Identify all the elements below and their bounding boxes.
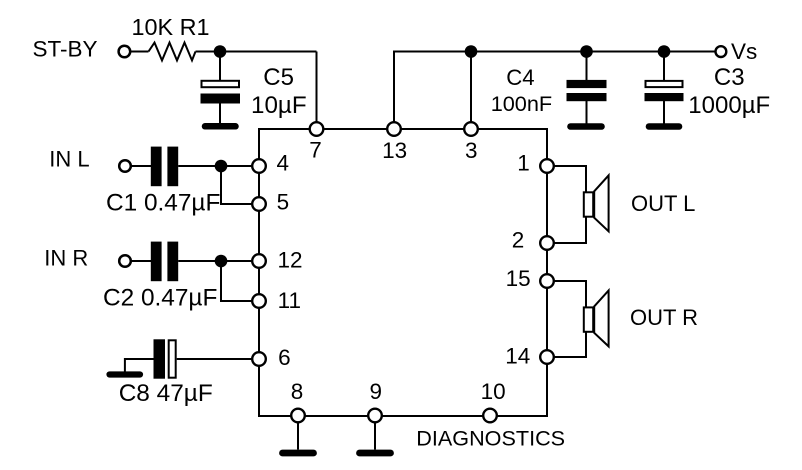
ground: [649, 123, 679, 130]
svg-text:OUT L: OUT L: [631, 191, 695, 216]
ground: [360, 450, 391, 457]
wire: [547, 217, 586, 243]
svg-text:15: 15: [506, 266, 531, 291]
wire: [219, 52, 221, 81]
pin 6: [252, 352, 266, 366]
svg-text:5: 5: [277, 189, 290, 214]
wire: [219, 104, 221, 124]
svg-text:C2 0.47µF: C2 0.47µF: [103, 285, 217, 312]
svg-text:100nF: 100nF: [491, 91, 553, 116]
pin 15: [540, 274, 554, 288]
junction: [658, 45, 671, 58]
wire: [586, 101, 588, 124]
pin 13: [387, 122, 401, 136]
wire: [297, 416, 299, 450]
svg-text:11: 11: [278, 288, 301, 313]
svg-text:2: 2: [512, 228, 525, 253]
capacitor C1: [151, 147, 178, 187]
svg-text:14: 14: [505, 344, 530, 369]
svg-text:C5: C5: [263, 64, 294, 91]
svg-text:7: 7: [309, 138, 322, 163]
svg-text:IN R: IN R: [44, 246, 88, 271]
junction: [580, 45, 593, 58]
pin 3: [464, 122, 478, 136]
svg-text:12: 12: [277, 247, 302, 272]
wire: [374, 416, 376, 450]
svg-text:1000µF: 1000µF: [688, 92, 770, 119]
pin 5: [252, 197, 266, 211]
wire: [547, 281, 586, 307]
terminal ST-BY: [119, 46, 131, 58]
speaker OUT R: [584, 291, 609, 347]
pin 14: [540, 350, 554, 364]
pin 7: [310, 122, 324, 136]
capacitor C4: [567, 80, 607, 101]
svg-text:OUT R: OUT R: [630, 305, 698, 330]
svg-text:3: 3: [465, 138, 478, 163]
svg-text:ST-BY: ST-BY: [33, 37, 98, 62]
capacitor C3: [645, 81, 684, 101]
wire: [663, 52, 665, 81]
junction: [214, 45, 227, 58]
capacitor C5: [201, 81, 241, 104]
wire: [586, 52, 588, 81]
wire: [316, 52, 318, 130]
svg-text:9: 9: [369, 379, 382, 404]
wire: [125, 359, 154, 372]
IC body: [259, 129, 547, 416]
wire: [196, 51, 317, 53]
ground: [205, 123, 236, 130]
svg-text:10: 10: [481, 379, 506, 404]
svg-text:4: 4: [276, 150, 289, 175]
svg-text:C3: C3: [714, 64, 745, 91]
ground: [571, 123, 602, 130]
svg-text:DIAGNOSTICS: DIAGNOSTICS: [416, 425, 565, 450]
wire: [547, 166, 586, 192]
wire: [132, 165, 152, 167]
wire: [178, 260, 259, 262]
ground: [283, 450, 314, 457]
wire: [131, 51, 149, 53]
wire: [663, 101, 665, 124]
wire: [177, 358, 259, 360]
svg-text:13: 13: [382, 138, 407, 163]
svg-text:8: 8: [291, 379, 304, 404]
terminal IN R: [119, 255, 131, 267]
pin 2: [540, 236, 554, 250]
pin 11: [252, 294, 266, 308]
ground: [110, 371, 141, 377]
svg-text:6: 6: [278, 345, 291, 370]
speaker OUT L: [584, 175, 609, 231]
svg-text:C4: C4: [506, 65, 534, 90]
svg-text:Vs: Vs: [731, 39, 757, 64]
svg-text:C8 47µF: C8 47µF: [119, 380, 213, 407]
resistor R1: [149, 43, 196, 61]
wire: [470, 52, 472, 130]
wire: [178, 165, 259, 167]
pin 10: [483, 409, 497, 423]
svg-text:IN L: IN L: [49, 147, 89, 172]
capacitor C8: [154, 339, 176, 378]
wire: [221, 166, 259, 204]
wire: [221, 261, 259, 301]
wire: [132, 260, 152, 262]
pin 1: [540, 159, 554, 173]
pin 12: [252, 254, 266, 268]
capacitor C2: [151, 242, 178, 282]
svg-text:C1 0.47µF: C1 0.47µF: [106, 189, 220, 216]
pin 4: [252, 159, 266, 173]
terminal Vs: [716, 46, 727, 57]
wire: [547, 332, 586, 357]
junction: [215, 160, 228, 173]
svg-text:10µF: 10µF: [251, 92, 307, 119]
pin 9: [368, 409, 382, 423]
svg-text:1: 1: [517, 151, 530, 176]
junction: [215, 255, 228, 268]
terminal IN L: [119, 160, 131, 172]
wire: [394, 52, 715, 130]
pin 8: [291, 409, 305, 423]
junction: [465, 45, 478, 58]
svg-text:10K R1: 10K R1: [132, 14, 210, 40]
